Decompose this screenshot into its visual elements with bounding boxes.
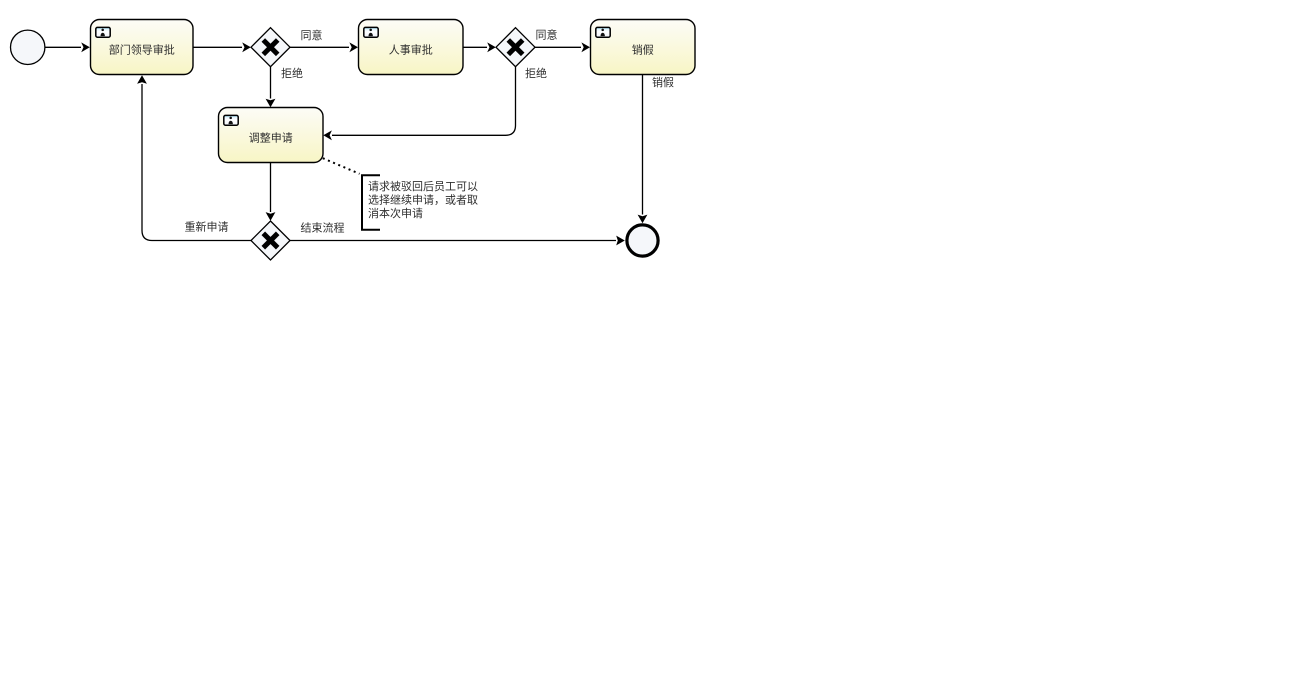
- svg-text:消本次申请: 消本次申请: [368, 205, 423, 221]
- svg-text:拒绝: 拒绝: [281, 65, 303, 81]
- user task 调整申请: [219, 108, 324, 163]
- exclusive gateway G3: [251, 221, 290, 260]
- wire: flow 调整申请 down to gateway G3: [266, 163, 276, 221]
- end event: [627, 225, 658, 256]
- svg-text:调整申请: 调整申请: [249, 129, 293, 145]
- wire: flow G3 back up to 部门领导审批: [137, 75, 251, 240]
- user task 部门领导审批: [91, 20, 194, 75]
- svg-text:人事审批: 人事审批: [389, 41, 433, 57]
- exclusive gateway G2: [496, 28, 535, 67]
- wire: flow G3 to end event: [290, 236, 625, 246]
- annotation bracket: [362, 175, 380, 230]
- wire: flow start to task 部门领导审批: [45, 42, 90, 52]
- svg-text:同意: 同意: [536, 27, 558, 43]
- wire: flow G2 down-left into 调整申请: [323, 67, 515, 141]
- annotation text: [368, 178, 478, 221]
- svg-text:结束流程: 结束流程: [301, 219, 345, 235]
- user task 人事审批: [359, 20, 464, 75]
- svg-text:重新申请: 重新申请: [185, 218, 229, 234]
- association dotted line 调整申请 to annotation: [323, 158, 360, 174]
- svg-text:拒绝: 拒绝: [525, 65, 547, 81]
- user task 销假: [591, 20, 696, 75]
- wire: flow 部门领导审批 to gateway G1: [194, 42, 251, 52]
- svg-text:销假: 销假: [652, 74, 674, 90]
- wire: flow G1 to 人事审批: [290, 42, 358, 52]
- svg-text:销假: 销假: [632, 41, 654, 57]
- start event: [11, 30, 45, 64]
- exclusive gateway G1: [251, 28, 290, 67]
- svg-text:部门领导审批: 部门领导审批: [109, 41, 175, 57]
- wire: flow 销假 down to end event: [638, 75, 648, 224]
- wire: flow G1 down to 调整申请: [266, 67, 276, 108]
- wire: flow G2 to 销假: [535, 42, 590, 52]
- wire: flow 人事审批 to gateway G2: [463, 42, 496, 52]
- svg-text:同意: 同意: [301, 27, 323, 43]
